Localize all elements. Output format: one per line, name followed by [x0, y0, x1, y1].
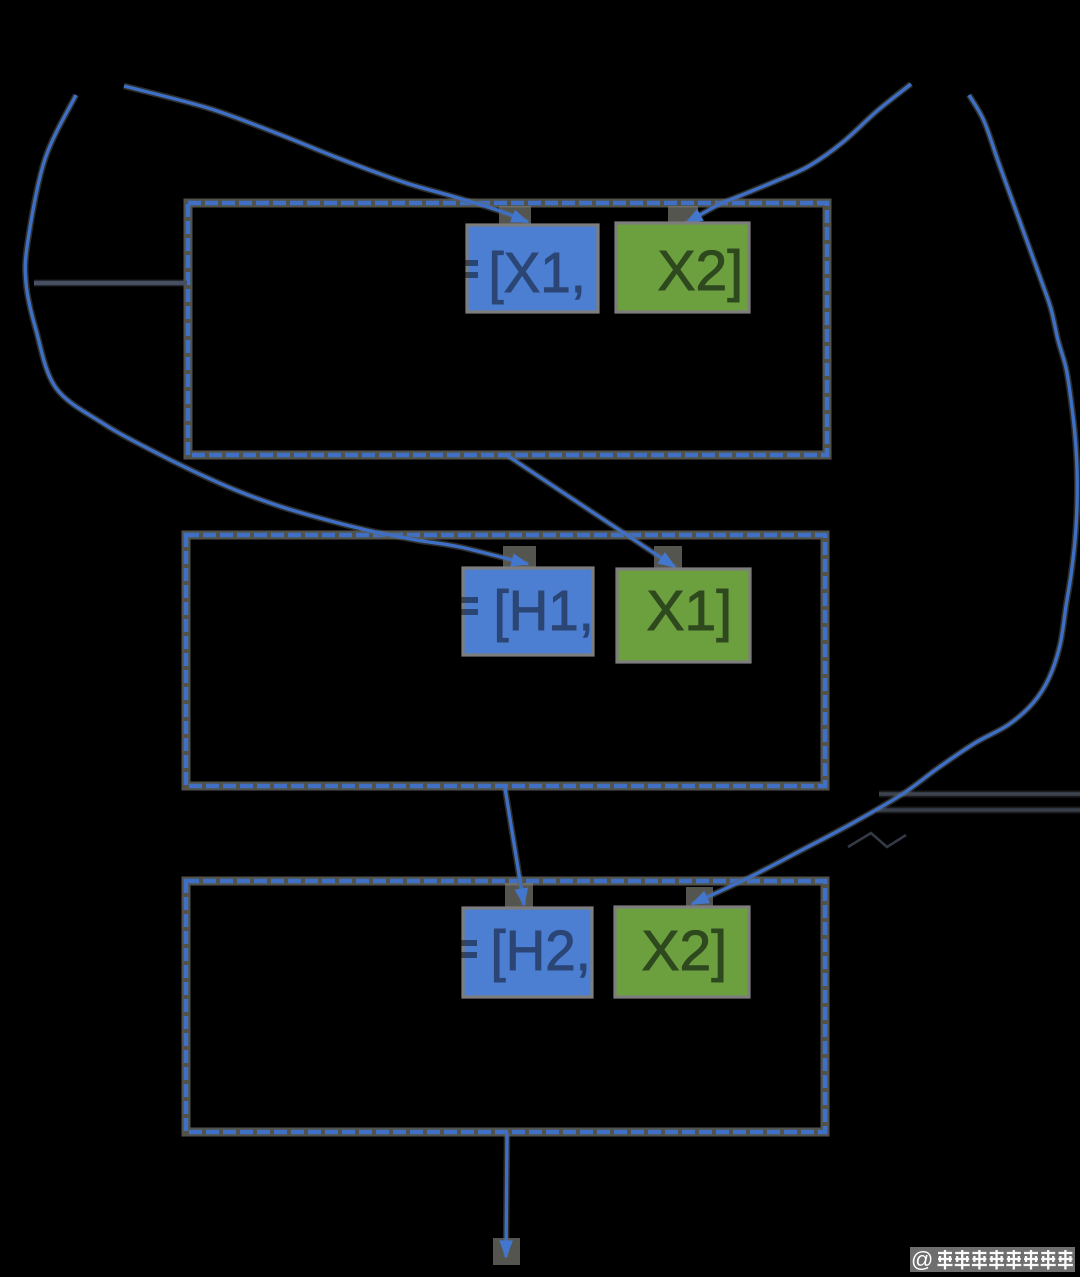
svg-text:[X1,: [X1, [489, 240, 586, 304]
svg-text:[H2,: [H2, [491, 918, 591, 982]
svg-text:X2]: X2] [658, 239, 744, 303]
svg-text:X1]: X1] [647, 579, 733, 643]
svg-text:[H1,: [H1, [494, 578, 594, 642]
svg-text:X2]: X2] [642, 919, 728, 983]
svg-text:@: @ [911, 1247, 933, 1272]
